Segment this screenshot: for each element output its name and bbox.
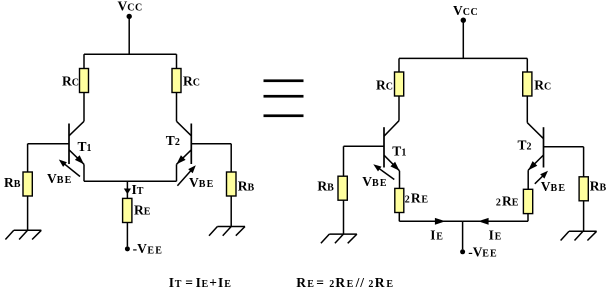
svg-text:E: E xyxy=(307,279,314,290)
svg-text:VBE: VBE xyxy=(47,171,73,186)
svg-text:IT: IT xyxy=(132,182,144,197)
svg-text:2: 2 xyxy=(405,195,411,206)
svg-text:I: I xyxy=(196,275,201,290)
svg-text:RE: RE xyxy=(134,202,151,217)
svg-text:E: E xyxy=(224,279,231,290)
svg-text:2: 2 xyxy=(496,198,502,209)
svg-text:2: 2 xyxy=(329,279,335,290)
svg-text:T: T xyxy=(175,279,182,290)
svg-text:=: = xyxy=(316,275,324,290)
svg-text:RC: RC xyxy=(62,74,79,89)
svg-text:RB: RB xyxy=(590,179,607,194)
svg-text:=: = xyxy=(185,275,193,290)
svg-text:2: 2 xyxy=(368,279,374,290)
svg-text:T2: T2 xyxy=(166,133,181,148)
svg-text:IE: IE xyxy=(489,227,502,242)
svg-text:R: R xyxy=(502,194,512,209)
svg-text:R: R xyxy=(296,275,306,290)
svg-text:R: R xyxy=(335,275,345,290)
svg-text:I: I xyxy=(218,275,223,290)
svg-text:RC: RC xyxy=(376,78,393,93)
svg-text:VBE: VBE xyxy=(362,174,388,189)
svg-text:VBE: VBE xyxy=(189,175,215,190)
svg-text:IE: IE xyxy=(430,227,443,242)
svg-text:T1: T1 xyxy=(78,139,93,154)
svg-text:/: / xyxy=(355,275,360,290)
svg-text:RB: RB xyxy=(4,175,21,190)
svg-text:+: + xyxy=(209,275,217,290)
svg-text:I: I xyxy=(169,275,174,290)
svg-text:R: R xyxy=(375,275,385,290)
svg-text:T1: T1 xyxy=(392,143,407,158)
svg-text:RC: RC xyxy=(183,74,200,89)
svg-text:-V: -V xyxy=(133,241,147,256)
svg-text:RB: RB xyxy=(317,179,334,194)
svg-text:E: E xyxy=(347,279,354,290)
svg-text:E: E xyxy=(202,279,209,290)
svg-text:T2: T2 xyxy=(518,137,533,152)
svg-text:EE: EE xyxy=(482,249,498,260)
svg-text:E: E xyxy=(386,279,393,290)
svg-text:VCC: VCC xyxy=(118,0,143,14)
svg-text:E: E xyxy=(421,195,428,206)
svg-text:VCC: VCC xyxy=(453,3,478,18)
svg-text:E: E xyxy=(512,198,519,209)
svg-text:-V: -V xyxy=(468,244,482,259)
svg-text:EE: EE xyxy=(147,245,163,256)
svg-text:/: / xyxy=(359,275,364,290)
svg-text:RB: RB xyxy=(238,178,255,193)
svg-text:RC: RC xyxy=(534,78,551,93)
svg-text:R: R xyxy=(411,191,421,206)
svg-text:VBE: VBE xyxy=(541,179,567,194)
